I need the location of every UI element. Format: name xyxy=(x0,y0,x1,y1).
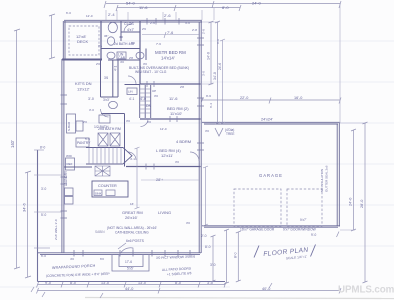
title trailing slash xyxy=(311,245,316,257)
svg-text:24'-0: 24'-0 xyxy=(349,198,353,206)
svg-text:2'-6: 2'-6 xyxy=(164,13,171,18)
garage right wall xyxy=(337,123,339,227)
svg-text:2'-8: 2'-8 xyxy=(192,28,197,32)
svg-text:140': 140' xyxy=(10,140,15,148)
svg-text:4'x7': 4'x7' xyxy=(127,28,134,32)
svg-text:11'x10': 11'x10' xyxy=(170,111,182,116)
svg-text:2'8: 2'8 xyxy=(129,56,133,60)
dryer box xyxy=(65,197,74,205)
master door hatch xyxy=(147,81,154,87)
svg-text:4'-0: 4'-0 xyxy=(185,21,190,25)
svg-text:26'x16': 26'x16' xyxy=(125,215,138,220)
svg-text:5'-6: 5'-6 xyxy=(85,137,90,141)
svg-text:4'0: 4'0 xyxy=(120,60,124,64)
svg-text:9'-6: 9'-6 xyxy=(206,94,211,98)
svg-text:14'x14': 14'x14' xyxy=(161,56,175,61)
tree label xyxy=(225,128,235,136)
svg-text:4 BDRM: 4 BDRM xyxy=(176,139,191,144)
deck label xyxy=(76,34,88,44)
kitchen stove box xyxy=(76,121,83,131)
svg-text:3'-0: 3'-0 xyxy=(41,187,46,191)
master bed dim line 7-6 xyxy=(142,32,199,38)
svg-text:3'-0: 3'-0 xyxy=(210,263,216,267)
svg-text:3'6: 3'6 xyxy=(98,44,102,48)
south wall window hatches xyxy=(74,250,190,257)
closet bottom wall xyxy=(121,31,140,33)
laundry wall xyxy=(64,166,92,168)
east tie y84 xyxy=(202,83,213,85)
svg-text:3'0: 3'0 xyxy=(143,62,147,66)
svg-text:3'6: 3'6 xyxy=(104,76,108,80)
garage door dashed B xyxy=(287,189,322,227)
svg-text:13'x12': 13'x12' xyxy=(77,87,90,92)
bottom overall labels xyxy=(125,287,270,291)
garage bottom wall xyxy=(202,226,340,227)
bottom dim labels A xyxy=(45,281,213,285)
porch tick mid xyxy=(34,174,62,176)
east house dim line A xyxy=(209,21,214,85)
svg-text:CATHEDRAL CEILING: CATHEDRAL CEILING xyxy=(115,231,149,235)
svg-text:LAUNDRY: LAUNDRY xyxy=(64,170,68,186)
bedroom2 south wall xyxy=(140,118,201,120)
svg-text:3'-0: 3'-0 xyxy=(88,97,94,101)
bed2 door gap hatch xyxy=(170,116,177,122)
svg-text:DN: DN xyxy=(146,104,152,108)
bath block bottom wall xyxy=(101,48,140,50)
bedroom2 labels xyxy=(167,96,189,116)
pantry box xyxy=(76,138,89,147)
svg-text:6'0: 6'0 xyxy=(100,257,104,261)
svg-text:12'x11': 12'x11' xyxy=(161,153,173,158)
svg-text:8'-0: 8'-0 xyxy=(70,281,76,285)
closet-master wall x140 xyxy=(139,21,141,84)
dimension line left 34-6 xyxy=(25,171,31,278)
great room dim line xyxy=(141,179,199,181)
svg-text:6'-0: 6'-0 xyxy=(41,254,46,258)
svg-text:36": 36" xyxy=(104,34,108,38)
bath2 east wall xyxy=(124,114,126,167)
stairs upper rungs xyxy=(140,89,151,113)
svg-text:2'0: 2'0 xyxy=(96,62,100,66)
svg-text:13'-0: 13'-0 xyxy=(138,281,146,285)
svg-text:12'-0: 12'-0 xyxy=(160,127,167,131)
lin cab box xyxy=(117,52,126,59)
svg-text:2'-6: 2'-6 xyxy=(150,21,155,25)
svg-text:28'-0: 28'-0 xyxy=(360,200,364,208)
small bath wall x146 xyxy=(145,49,147,61)
svg-text:2'0: 2'0 xyxy=(83,120,87,124)
svg-text:8'-0: 8'-0 xyxy=(175,281,181,285)
svg-text:6'-4: 6'-4 xyxy=(209,103,213,108)
posts arrow xyxy=(118,243,126,249)
svg-text:5'-0: 5'-0 xyxy=(41,213,46,217)
dimension line top overall 54ft / 24ft xyxy=(104,1,341,8)
half bath toilet xyxy=(109,101,118,108)
svg-text:22'-0: 22'-0 xyxy=(240,96,248,100)
svg-text:8'-0: 8'-0 xyxy=(40,146,45,150)
svg-text:MSTR BED RM: MSTR BED RM xyxy=(155,50,186,55)
svg-text:3'0: 3'0 xyxy=(205,129,209,133)
garage right dim 24 xyxy=(351,129,356,231)
island box2 xyxy=(106,190,115,196)
porch tick bottom xyxy=(34,247,50,249)
garage corner tie xyxy=(340,122,366,124)
svg-text:3'x3': 3'x3' xyxy=(103,98,110,102)
svg-text:3'-0: 3'-0 xyxy=(202,71,206,76)
porch tick top xyxy=(34,149,44,151)
counter island xyxy=(92,181,128,197)
fridge box xyxy=(66,158,75,170)
garage bottom tie xyxy=(340,229,355,231)
east rotated labels extra xyxy=(202,29,221,108)
southeast dim line A xyxy=(211,235,216,282)
svg-text:4'0: 4'0 xyxy=(70,257,74,261)
bedroom4 south wall xyxy=(126,166,201,168)
svg-text:KIT'S DN: KIT'S DN xyxy=(75,81,92,86)
far right dim xyxy=(363,122,368,283)
svg-text:16'-0: 16'-0 xyxy=(294,96,302,100)
bath2 north wall xyxy=(101,113,125,115)
svg-text:7'-6: 7'-6 xyxy=(156,42,161,46)
svg-text:24'-0: 24'-0 xyxy=(252,1,262,6)
deck dashed outline xyxy=(69,26,99,55)
entry door arc xyxy=(121,248,133,253)
svg-text:17'-6: 17'-6 xyxy=(125,260,132,264)
lin cab label xyxy=(118,53,126,61)
garage door small tick xyxy=(337,232,340,238)
hatched closet under stairs xyxy=(95,166,110,176)
svg-text:7'-6: 7'-6 xyxy=(167,31,173,35)
east house dim line B xyxy=(215,21,220,124)
svg-text:16': 16' xyxy=(130,202,134,206)
svg-text:13'-0: 13'-0 xyxy=(101,281,109,285)
svg-text:2'-8: 2'-8 xyxy=(202,29,206,34)
north wall window hatch xyxy=(147,18,179,25)
svg-text:34'-0: 34'-0 xyxy=(213,72,217,80)
top tick extensions xyxy=(106,8,214,20)
svg-text:REF: REF xyxy=(67,162,73,166)
garage corner extension xyxy=(339,4,341,124)
svg-text:PANTRY: PANTRY xyxy=(77,141,91,145)
svg-text:3'-0: 3'-0 xyxy=(89,108,94,112)
svg-text:4'-1: 4'-1 xyxy=(130,157,135,161)
west wall upper xyxy=(62,59,64,253)
southeast dim line B xyxy=(224,229,229,284)
deck south wall xyxy=(62,59,102,61)
svg-text:SINK: SINK xyxy=(95,192,102,196)
svg-text:8'-0: 8'-0 xyxy=(205,245,211,249)
svg-text:8'-0: 8'-0 xyxy=(222,5,229,10)
sink box xyxy=(94,190,102,196)
scattered tiny labels xyxy=(41,11,211,261)
great room notes xyxy=(107,226,157,235)
svg-text:16'x7' GARAGE DOOR: 16'x7' GARAGE DOOR xyxy=(240,228,275,232)
basement stairs rungs xyxy=(89,148,121,165)
patio doors note xyxy=(162,266,192,276)
svg-text:WIN SEAT - 10' CLG: WIN SEAT - 10' CLG xyxy=(135,70,167,74)
deck west wall xyxy=(63,21,65,60)
svg-text:COUNTER: COUNTER xyxy=(98,184,117,188)
svg-text:5'x5': 5'x5' xyxy=(127,267,134,271)
east wall xyxy=(199,21,201,253)
garage door dashed A xyxy=(234,189,281,227)
svg-text:6x6 POSTS: 6x6 POSTS xyxy=(126,239,145,243)
garage top wall xyxy=(202,122,340,124)
svg-text:9'-0: 9'-0 xyxy=(311,233,316,237)
bath block wall x101 xyxy=(100,21,102,60)
bath2 door arc xyxy=(128,152,136,160)
svg-text:GUTTER SEAL 2x6: GUTTER SEAL 2x6 xyxy=(325,165,329,192)
svg-text:CLOS: CLOS xyxy=(124,22,134,26)
hall door arc 1 xyxy=(128,76,136,84)
porch edge west xyxy=(37,150,39,282)
svg-text:34'-6: 34'-6 xyxy=(22,202,27,212)
bottom overall dim row xyxy=(37,288,342,294)
svg-text:8'-0: 8'-0 xyxy=(216,39,220,44)
master south wall xyxy=(140,83,201,85)
svg-text:NO INSULATION: NO INSULATION xyxy=(320,169,324,192)
kitchen label xyxy=(75,81,92,92)
svg-text:9'x7' DOOR/WINDOW: 9'x7' DOOR/WINDOW xyxy=(283,228,317,232)
svg-text:2'8: 2'8 xyxy=(180,85,184,89)
svg-text:GARAGE: GARAGE xyxy=(259,173,283,178)
svg-text:11'-6: 11'-6 xyxy=(139,5,148,10)
svg-text:UP: UP xyxy=(152,89,156,93)
basement stairs rails xyxy=(86,148,123,165)
svg-text:3'0: 3'0 xyxy=(186,221,190,225)
svg-text:9'x7': 9'x7' xyxy=(300,218,307,222)
bath2 shower box B xyxy=(110,133,120,146)
dimension line deck west 24 xyxy=(49,14,55,59)
second bath bottom wall xyxy=(108,59,140,61)
south wall xyxy=(38,253,201,255)
bath2 tub box xyxy=(99,115,110,123)
svg-text:4'-0: 4'-0 xyxy=(140,97,146,101)
great room labels xyxy=(122,210,171,220)
svg-text:9'-0: 9'-0 xyxy=(45,281,51,285)
north wall xyxy=(64,20,202,22)
bedroom4 labels xyxy=(156,139,191,158)
bath2 sink oval xyxy=(107,52,115,59)
bath3 toilet oval xyxy=(136,52,144,59)
svg-text:3'0: 3'0 xyxy=(126,119,130,123)
scan shadow bottom xyxy=(85,298,394,299)
porch edge south xyxy=(38,281,226,283)
svg-text:(NOT INCL WALL AREA) - 26'x16': (NOT INCL WALL AREA) - 26'x16' xyxy=(107,226,157,230)
svg-text:3'0: 3'0 xyxy=(175,160,179,164)
builtins note xyxy=(129,66,189,74)
svg-text:LIVING: LIVING xyxy=(158,210,171,215)
svg-text:2'-4: 2'-4 xyxy=(108,12,115,17)
bed2 door arc xyxy=(141,119,149,127)
svg-text:3'0: 3'0 xyxy=(154,94,158,98)
svg-text:2'-0: 2'-0 xyxy=(201,234,207,238)
linen closet box xyxy=(127,88,137,95)
svg-text:LIN: LIN xyxy=(128,90,133,94)
bed4 door hatch xyxy=(146,164,154,170)
toilet upper bath xyxy=(107,37,114,45)
svg-text:11'-6: 11'-6 xyxy=(169,96,178,101)
hall south wall xyxy=(125,84,141,86)
svg-text:1/2 BATH: 1/2 BATH xyxy=(94,125,109,129)
title leading slash xyxy=(254,246,259,258)
east wall window hatches xyxy=(197,38,204,150)
living east dim xyxy=(203,166,208,226)
bottom dim row A xyxy=(37,282,227,288)
svg-text:14'-0: 14'-0 xyxy=(207,52,211,60)
svg-text:TREE: TREE xyxy=(226,132,235,136)
hall west wall x100.5 xyxy=(100,60,102,97)
svg-text:2'6: 2'6 xyxy=(142,27,146,31)
west wall window hatches xyxy=(61,95,68,218)
entry steps outer xyxy=(112,255,149,272)
stairs arrow head xyxy=(123,148,132,165)
tree symbol xyxy=(215,128,223,136)
east tie y22 xyxy=(202,21,219,23)
svg-text:4'-1: 4'-1 xyxy=(129,97,134,101)
southeast dim line C xyxy=(236,231,241,282)
svg-text:S-BAR: S-BAR xyxy=(67,121,71,131)
svg-text:UPMLS.com: UPMLS.com xyxy=(338,285,394,296)
kitchen counter west xyxy=(67,114,76,133)
svg-text:3'0: 3'0 xyxy=(147,120,151,124)
svg-text:2'x6' WALL 3'-0: 2'x6' WALL 3'-0 xyxy=(54,219,58,240)
svg-text:54'-0: 54'-0 xyxy=(126,1,136,6)
kitchen dim line east xyxy=(135,147,140,209)
porch tick low xyxy=(34,211,62,213)
dimension line left property 140ft xyxy=(14,29,20,269)
bed4 patio arc xyxy=(190,152,199,161)
svg-text:6'-0: 6'-0 xyxy=(66,11,71,15)
svg-text:24'-6: 24'-6 xyxy=(218,63,222,70)
master bed label xyxy=(155,50,186,61)
hall closet wall x112.8 xyxy=(112,60,114,97)
svg-text:DECK: DECK xyxy=(77,39,88,44)
svg-text:24'x24': 24'x24' xyxy=(261,118,273,122)
hall closet wall x118 xyxy=(117,60,119,97)
kitchen door arc xyxy=(101,109,109,117)
svg-text:3'-0: 3'-0 xyxy=(207,281,213,285)
half bath top wall xyxy=(101,96,119,98)
stairs upper rails xyxy=(140,85,151,118)
garage width labels xyxy=(240,96,302,100)
entry steps inner xyxy=(119,255,143,267)
svg-text:8'-0: 8'-0 xyxy=(234,252,238,258)
tub upper bath xyxy=(108,22,117,32)
bottom slash ticks xyxy=(31,283,272,298)
bath2 shower box A xyxy=(98,133,108,146)
svg-text:W/D: W/D xyxy=(66,154,73,158)
svg-text:3'0: 3'0 xyxy=(119,35,123,39)
closet door arc xyxy=(124,24,132,32)
washer box xyxy=(65,188,74,196)
east house dim line C xyxy=(220,39,225,124)
top dimension labels xyxy=(108,1,262,19)
svg-text:44'-0: 44'-0 xyxy=(125,287,133,291)
svg-text:12'-0: 12'-0 xyxy=(86,14,93,18)
svg-text:SABIN: SABIN xyxy=(95,230,105,234)
bath-closet wall x121 xyxy=(120,21,122,41)
svg-text:5'0: 5'0 xyxy=(131,41,135,45)
garage width dim line xyxy=(201,98,341,104)
svg-text:4'-1: 4'-1 xyxy=(114,66,118,71)
dimension line top second 11-6 / 8-0 xyxy=(116,5,241,11)
